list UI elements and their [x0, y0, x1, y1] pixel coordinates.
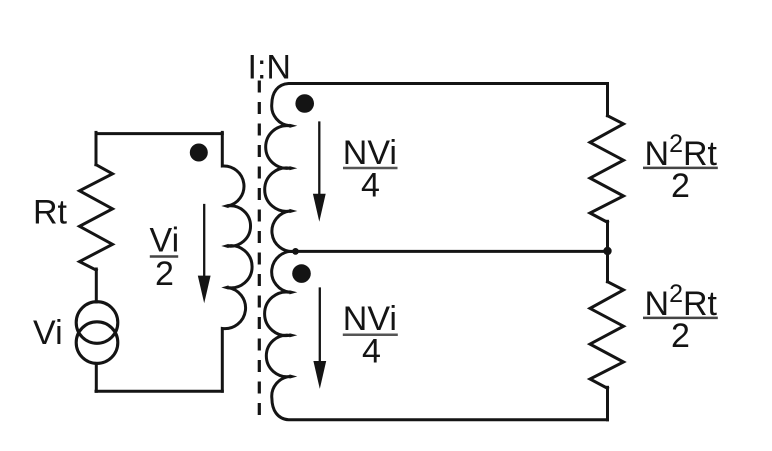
- wire bottom of primary loop: [96, 390, 222, 393]
- voltage source Vi: [76, 302, 118, 344]
- resistor Rt: [80, 165, 113, 270]
- arrow NVi/4 lower: [319, 289, 321, 366]
- wire top of primary loop: [96, 132, 222, 135]
- wire Rt to source: [95, 269, 98, 302]
- inductor primary winding: [222, 132, 252, 391]
- junction dot center tap left: [292, 248, 299, 255]
- upper winding cusp beaks: [290, 124, 298, 213]
- svg-text:4: 4: [362, 332, 381, 370]
- inductor secondary lower winding: [265, 251, 608, 420]
- transformer core dashed line: [258, 81, 261, 418]
- lower winding cusp beaks: [290, 290, 298, 378]
- wire resistor to center tap: [606, 221, 609, 251]
- primary winding cusp beaks: [221, 204, 228, 290]
- svg-text:2: 2: [671, 317, 690, 355]
- inductor secondary upper winding: [265, 84, 608, 252]
- polarity dot secondary upper: [295, 94, 314, 113]
- arrow NVi/4 upper: [318, 123, 320, 199]
- resistor N2Rt/2 upper: [590, 116, 624, 223]
- svg-text:2: 2: [155, 255, 174, 293]
- wire right top corner: [606, 84, 609, 116]
- arrow Vi/2: [203, 205, 205, 280]
- svg-text:Rt: Rt: [33, 194, 68, 232]
- wire lower resistor to bottom: [606, 387, 609, 420]
- polarity dot secondary lower: [292, 264, 311, 283]
- svg-text:Vi: Vi: [33, 314, 63, 352]
- wire center tap: [295, 250, 608, 253]
- polarity dot primary: [190, 144, 208, 162]
- svg-text:Vi: Vi: [150, 221, 180, 259]
- svg-text:I:N: I:N: [248, 48, 291, 86]
- resistor N2Rt/2 lower: [590, 282, 624, 389]
- junction dot center tap right: [603, 247, 611, 255]
- wire center tap to lower resistor: [606, 251, 609, 281]
- wire source to bottom: [95, 363, 98, 391]
- svg-text:2: 2: [671, 167, 690, 205]
- wire left-top vertical: [95, 132, 98, 164]
- svg-text:4: 4: [361, 166, 380, 204]
